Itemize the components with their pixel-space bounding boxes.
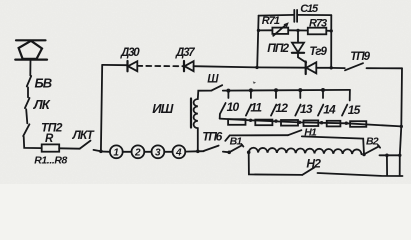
svg-text:14: 14 xyxy=(323,103,336,117)
svg-text:13: 13 xyxy=(300,102,313,116)
svg-text:ЛКТ: ЛКТ xyxy=(72,128,96,142)
svg-text:ИШ: ИШ xyxy=(152,101,173,116)
svg-text:Д37: Д37 xyxy=(175,47,195,59)
svg-text:4: 4 xyxy=(175,148,182,159)
svg-text:1: 1 xyxy=(113,148,119,159)
svg-text:11: 11 xyxy=(250,100,262,114)
svg-text:В1: В1 xyxy=(230,135,243,147)
svg-text:ТП6: ТП6 xyxy=(202,130,222,144)
svg-text:В2: В2 xyxy=(366,135,379,147)
svg-text:R73: R73 xyxy=(309,18,327,30)
svg-text:10: 10 xyxy=(227,100,240,114)
svg-text:2: 2 xyxy=(134,148,141,159)
svg-text:Н2: Н2 xyxy=(306,156,321,170)
svg-text:Д30: Д30 xyxy=(120,47,140,59)
svg-text:ЛК: ЛК xyxy=(33,97,51,112)
svg-text:С15: С15 xyxy=(300,3,319,15)
svg-text:БВ: БВ xyxy=(35,76,52,91)
svg-text:R: R xyxy=(45,133,54,145)
svg-text:R1...R8: R1...R8 xyxy=(34,155,67,167)
svg-text:12: 12 xyxy=(275,101,288,115)
svg-text:Тг9: Тг9 xyxy=(309,46,327,58)
svg-text:3: 3 xyxy=(155,148,161,159)
svg-text:ПП2: ПП2 xyxy=(267,41,289,55)
svg-text:Ш: Ш xyxy=(207,74,219,86)
svg-text:Н1: Н1 xyxy=(304,126,317,138)
svg-text:R71: R71 xyxy=(262,15,280,27)
svg-text:15: 15 xyxy=(348,103,361,117)
svg-text:ТП9: ТП9 xyxy=(350,51,370,63)
